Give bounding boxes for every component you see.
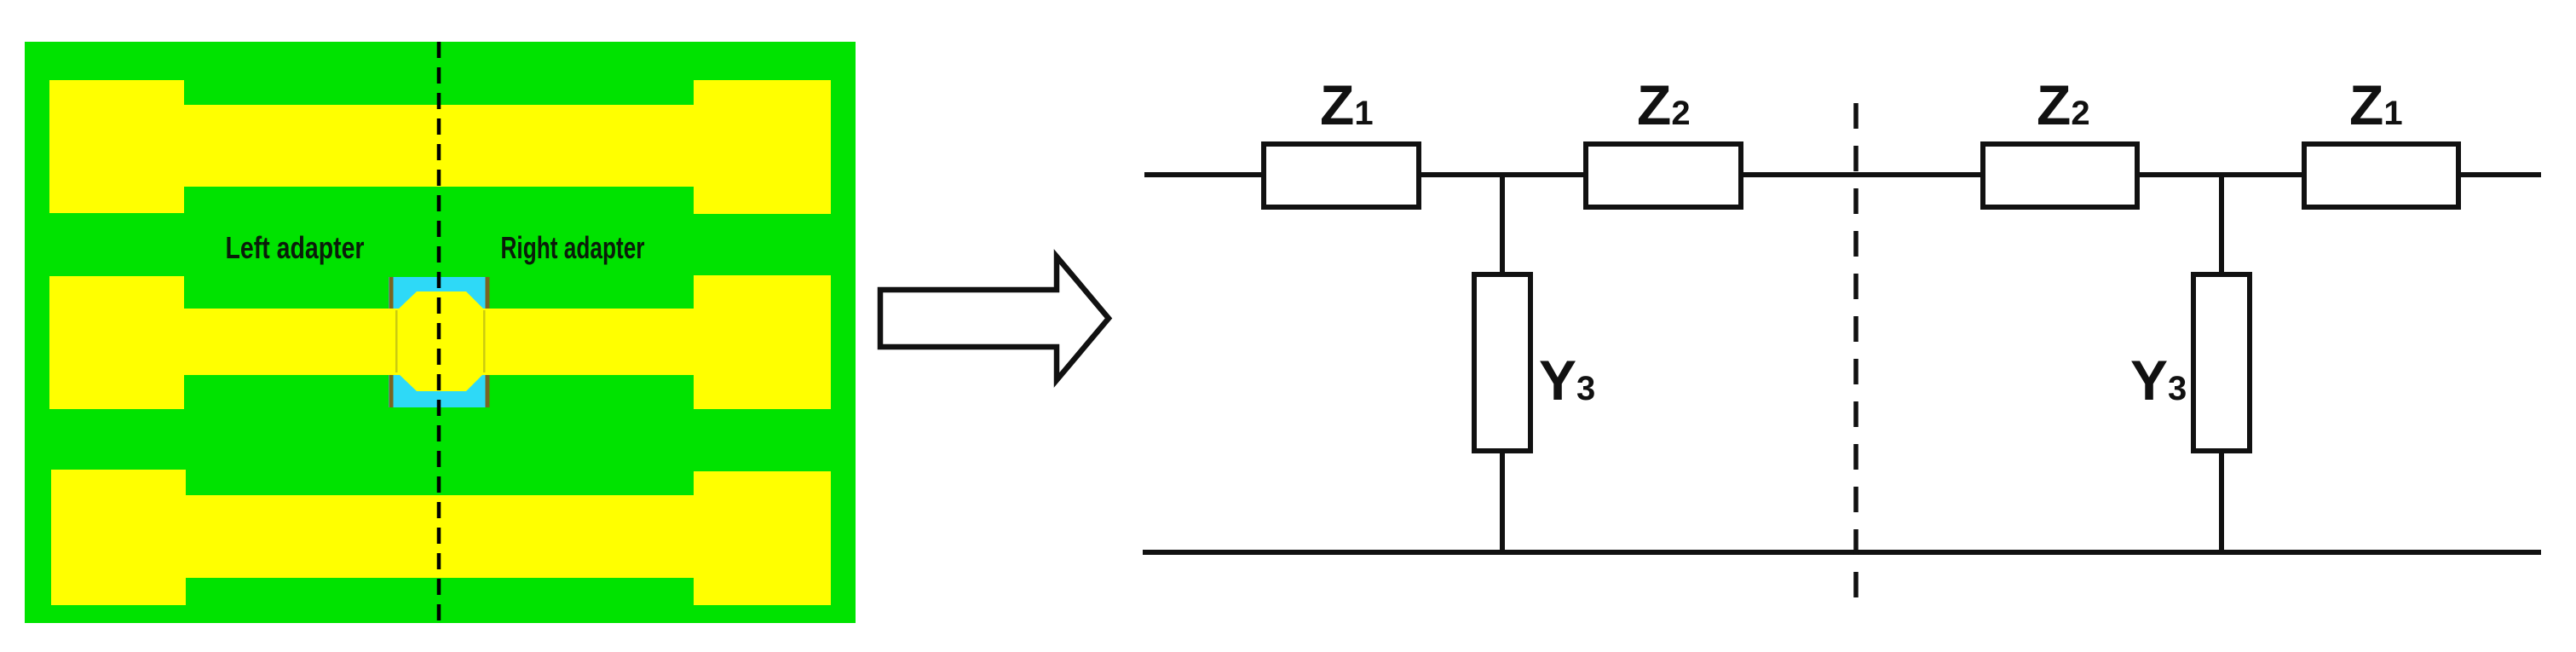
svg-text:Left adapter: Left adapter — [226, 230, 365, 265]
pad P2 (middle-left) — [49, 276, 184, 409]
PCB symmetry cut line (dashed) — [437, 42, 441, 625]
via land edge lines (darker yellow) — [395, 310, 398, 372]
svg-text:Y3: Y3 — [2130, 349, 2187, 412]
solder stripe right (olive) — [486, 277, 490, 407]
trace T1 (top microstrip) — [184, 105, 694, 187]
admittance Y3 (left shunt box) — [1474, 274, 1530, 451]
svg-text:Y3: Y3 — [1539, 349, 1595, 412]
impedance Z1 (left series box) — [1264, 144, 1419, 207]
trace T3 (bottom microstrip) — [184, 495, 694, 578]
arrow (PCB to schematic) — [880, 257, 1109, 380]
pad P3 (bottom-left) — [51, 470, 186, 605]
antipad (cyan clearance around via) — [389, 277, 489, 407]
wire: top rail (input to output) — [1144, 172, 2541, 177]
pad P6 (bottom-right) — [694, 471, 831, 605]
wire: right shunt lower (Y3 to return) — [2219, 447, 2224, 552]
svg-text:Z2: Z2 — [2037, 73, 2090, 136]
impedance Z2 (right series box) — [1983, 144, 2137, 207]
svg-text:Z1: Z1 — [1320, 73, 1374, 136]
PCB board (green substrate) — [25, 42, 856, 623]
pad P1 (top-left) — [49, 80, 184, 213]
wire: bottom return rail — [1143, 550, 2541, 555]
impedance Z1 (right series box) — [2304, 144, 2458, 207]
wire: right shunt (node B down) — [2219, 175, 2224, 277]
impedance Z2 (left series box) — [1586, 144, 1741, 207]
via land (yellow octagon) — [397, 291, 485, 391]
wire: left shunt (node A down) — [1500, 175, 1505, 277]
svg-text:Z1: Z1 — [2349, 73, 2403, 136]
pad P5 (middle-right) — [694, 275, 831, 409]
admittance Y3 (right shunt box) — [2193, 274, 2250, 451]
schematic symmetry line (dashed) — [1853, 103, 1859, 603]
svg-text:Right adapter: Right adapter — [501, 230, 645, 265]
trace T2 (middle microstrip) — [184, 309, 694, 375]
wire: left shunt lower (Y3 to return) — [1500, 447, 1505, 552]
solder stripe left (olive) — [389, 277, 394, 407]
pad P4 (top-right) — [694, 80, 831, 214]
svg-text:Z2: Z2 — [1637, 73, 1691, 136]
